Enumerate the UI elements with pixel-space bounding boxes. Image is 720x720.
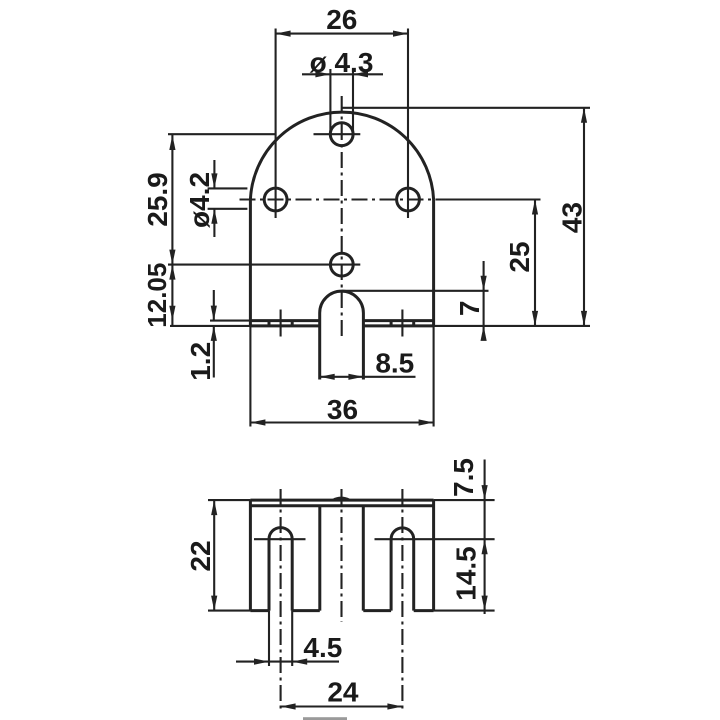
svg-text:25: 25 (504, 241, 535, 272)
svg-text:14.5: 14.5 (451, 546, 482, 601)
svg-text:4.5: 4.5 (303, 632, 342, 663)
svg-text:ø4.2: ø4.2 (184, 172, 215, 228)
svg-text:36: 36 (327, 394, 358, 425)
svg-text:8.5: 8.5 (375, 348, 414, 379)
svg-text:1.2: 1.2 (185, 342, 216, 381)
svg-text:7.5: 7.5 (448, 458, 479, 497)
svg-text:26: 26 (326, 4, 357, 35)
svg-text:24: 24 (327, 677, 359, 708)
svg-text:43: 43 (556, 202, 587, 233)
svg-text:ø 4.3: ø 4.3 (310, 47, 374, 78)
svg-text:7: 7 (454, 301, 485, 317)
svg-text:25.9: 25.9 (142, 172, 173, 227)
svg-text:22: 22 (185, 540, 216, 571)
svg-text:12.05: 12.05 (142, 263, 172, 328)
